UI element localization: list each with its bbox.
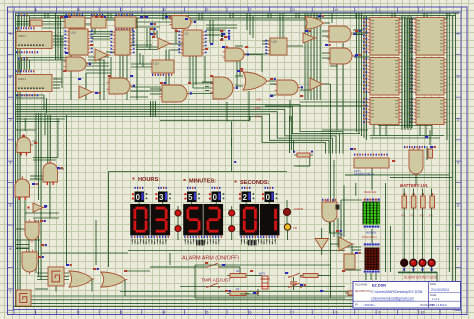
svg-text:MLED-RED-A: MLED-RED-A [362,236,377,239]
svg-text:VER. 2.0 BUILD: VER. 2.0 BUILD [430,305,447,307]
svg-text:470: 470 [401,215,406,218]
svg-text:SYNC: SYNC [255,116,262,119]
svg-text:F: F [249,8,251,12]
svg-text:2: 2 [457,75,459,79]
svg-text:5: 5 [207,311,209,315]
svg-text:PWR: PWR [255,107,261,110]
svg-text:2: 2 [10,75,12,79]
svg-text:470: 470 [420,215,425,218]
svg-text:MLED-BAR: MLED-BAR [364,191,377,194]
svg-text:BATTERY LVL: BATTERY LVL [400,183,429,188]
svg-text:MLEDGN: MLEDGN [366,232,377,235]
svg-text:G: G [292,8,295,12]
svg-text:3: 3 [457,118,459,122]
svg-text:1: 1 [457,32,459,36]
svg-text:KEYPADCTRL-A: KEYPADCTRL-A [354,172,374,176]
svg-text:GND: GND [256,99,262,102]
svg-text:U10: U10 [71,31,77,35]
svg-text:<NONE>: <NONE> [363,303,375,307]
svg-text:6: 6 [457,247,459,251]
svg-text:BY:: BY: [355,305,359,307]
svg-text:4: 4 [164,311,166,315]
svg-text:4: 4 [457,161,459,165]
svg-text:1010 1: 1010 1 [18,34,26,38]
svg-text:7: 7 [10,290,12,294]
svg-text:DATE:: DATE: [430,283,437,286]
svg-text:I: I [379,8,380,12]
svg-text:1 of 1: 1 of 1 [432,297,440,301]
svg-text:2: 2 [78,311,80,315]
svg-text:3: 3 [159,193,164,202]
svg-text:PM: PM [293,226,297,230]
svg-text:1010 1: 1010 1 [18,77,26,81]
svg-text:U1: U1 [54,34,58,38]
svg-text:U19: U19 [272,40,278,44]
svg-text:3: 3 [121,311,123,315]
svg-text:DESCRIPTION:: DESCRIPTION: [355,291,372,293]
svg-text:5: 5 [188,193,193,202]
svg-text:4: 4 [10,161,12,165]
svg-text:9: 9 [379,311,381,315]
svg-text:0: 0 [136,193,141,202]
svg-text:TMR ADJUST: TMR ADJUST [201,278,231,284]
svg-text:470: 470 [410,215,415,218]
svg-text:-AMdPM: -AMdPM [293,207,303,211]
svg-text:C:\Users\MAR\Desktop\EZ.DSN: C:\Users\MAR\Desktop\EZ.DSN [371,290,423,294]
svg-text:U9: U9 [54,77,58,81]
svg-text:6: 6 [10,247,12,251]
svg-text:3: 3 [10,118,12,122]
svg-text:1: 1 [10,32,12,36]
svg-text:7: 7 [293,311,295,315]
svg-text:0: 0 [213,193,218,202]
svg-text:R2: R2 [236,287,240,291]
svg-text:SECONDS:: SECONDS: [240,180,270,186]
svg-text:1: 1 [35,311,37,315]
svg-text:21/10/2024: 21/10/2024 [431,288,449,292]
svg-text:ALARM ARM (ON/OFF): ALARM ARM (ON/OFF) [182,256,239,262]
svg-text:5: 5 [457,204,459,208]
svg-text:U2: U2 [185,32,189,36]
svg-text:MINUTES:: MINUTES: [189,179,216,185]
svg-text:R1: R1 [236,269,240,273]
svg-text:U13: U13 [154,62,160,66]
svg-text:BAT1: BAT1 [259,272,266,276]
svg-text:J: J [422,8,424,12]
svg-text:crisvermendoza@gmail.com: crisvermendoza@gmail.com [371,297,414,301]
svg-text:FILE NAME:: FILE NAME: [355,284,368,287]
svg-text:ALARM SOUND LEDS: ALARM SOUND LEDS [404,275,437,279]
svg-text:EZ.DSN: EZ.DSN [372,283,386,287]
svg-text:8: 8 [336,311,338,315]
svg-text:6: 6 [250,311,252,315]
svg-text:10: 10 [421,311,425,315]
svg-text:5: 5 [10,204,12,208]
svg-text:HOURS:: HOURS: [138,177,160,183]
svg-text:2: 2 [243,193,248,202]
svg-text:0: 0 [266,193,271,202]
